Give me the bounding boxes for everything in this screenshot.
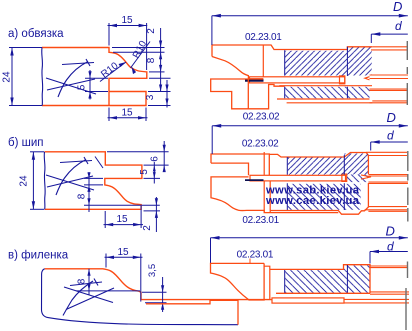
dim 6 — [107, 141, 169, 172]
d dim — [371, 34, 408, 43]
dim 15 bottom — [108, 108, 148, 122]
svg-text:3: 3 — [145, 94, 156, 100]
d dim — [371, 142, 408, 151]
svg-text:5: 5 — [77, 84, 88, 90]
panel tongue bottom and right-end step — [146, 300, 238, 324]
dim 3,5 — [142, 277, 167, 312]
upper hub hatch — [288, 158, 344, 175]
svg-text:www.cae.kiev.ua: www.cae.kiev.ua — [265, 195, 360, 207]
svg-text:15: 15 — [117, 247, 129, 258]
svg-text:2: 2 — [142, 225, 153, 231]
PIECE-A rail profile — [2, 15, 171, 121]
PIECE-C panel profile — [8, 247, 272, 325]
vertical joints — [264, 152, 270, 213]
D dim — [212, 16, 408, 45]
break line — [43, 152, 46, 210]
break symbol — [46, 59, 96, 97]
knife plate slot — [250, 175, 346, 181]
TEXTS — [0, 0, 1, 1]
svg-text:d: d — [387, 129, 394, 143]
profile outline — [45, 152, 142, 210]
break symbol — [63, 279, 114, 316]
ASSY3 cutter head bottom — [146, 224, 409, 331]
ASSY1 cutter head top — [211, 41, 408, 109]
svg-text:15: 15 — [116, 214, 128, 225]
dims 2,8,3 right stack — [112, 28, 171, 108]
shaft end break marks — [406, 262, 408, 331]
dim 5 — [85, 70, 108, 100]
svg-text:3,5: 3,5 — [147, 264, 158, 277]
dim 24 — [30, 152, 44, 210]
svg-text:02.23.01: 02.23.01 — [237, 250, 274, 261]
dim 5 — [144, 162, 161, 184]
svg-text:2: 2 — [146, 28, 157, 34]
clamp seam — [245, 179, 264, 181]
svg-text:D: D — [387, 110, 396, 125]
svg-text:5: 5 — [139, 169, 150, 175]
profile outline — [42, 48, 147, 106]
shaft end break marks — [407, 151, 409, 222]
dim 15 top — [108, 23, 148, 70]
svg-text:8: 8 — [77, 278, 88, 284]
dim 15 — [104, 206, 144, 228]
D dim — [212, 126, 408, 154]
svg-text:6: 6 — [150, 156, 161, 162]
panel left and bottom outline — [42, 269, 239, 325]
lower knife 02.23.01 — [211, 177, 338, 213]
svg-text:02.23.01: 02.23.01 — [245, 32, 282, 43]
svg-text:8: 8 — [77, 193, 88, 199]
lower knife 02.23.02 — [211, 79, 285, 109]
svg-text:D: D — [386, 224, 395, 239]
PIECE-B tenon profile — [8, 137, 169, 232]
shaft right lines — [344, 266, 409, 303]
svg-text:15: 15 — [121, 15, 133, 26]
break line — [41, 48, 44, 106]
svg-text:в) филенка: в) филенка — [8, 250, 69, 262]
svg-text:б) шип: б) шип — [8, 137, 44, 149]
svg-text:02.23.01: 02.23.01 — [242, 215, 279, 226]
lower hub — [288, 184, 361, 210]
clamp strip — [264, 266, 270, 300]
lower slot bar — [272, 298, 344, 303]
dim 2 — [144, 197, 161, 232]
svg-text:d: d — [395, 19, 402, 33]
lower hub — [279, 85, 372, 87]
dim R10 — [100, 42, 150, 82]
dim 8 — [84, 172, 160, 212]
upper hub hatch — [285, 51, 347, 76]
dim 24 — [9, 48, 42, 106]
vertical joints — [262, 45, 264, 77]
svg-text:а) обвязка: а) обвязка — [8, 28, 64, 40]
svg-text:02.23.02: 02.23.02 — [243, 112, 280, 123]
d dim — [370, 252, 408, 264]
svg-text:8: 8 — [146, 57, 157, 63]
knife plate slot — [250, 77, 345, 83]
svg-text:02.23.02: 02.23.02 — [242, 138, 279, 149]
break dims small lines — [95, 157, 103, 169]
upper knife 02.23.02 — [211, 153, 368, 176]
shaft right lines — [361, 152, 408, 211]
svg-text:15: 15 — [121, 108, 133, 119]
shaft end break marks — [406, 41, 408, 105]
dim 8 — [76, 269, 140, 295]
break symbol — [46, 157, 94, 195]
upper knife 02.23.01 — [212, 45, 372, 57]
svg-text:d: d — [387, 240, 394, 254]
shaft right lines — [365, 47, 408, 103]
hub — [270, 265, 370, 270]
svg-text:D: D — [393, 0, 402, 14]
panel top profile — [45, 269, 272, 300]
svg-text:24: 24 — [19, 175, 30, 187]
svg-text:24: 24 — [2, 71, 13, 83]
ASSY2 cutter head middle — [211, 151, 408, 222]
D dim — [211, 238, 408, 263]
clamp seam — [245, 79, 264, 82]
knife — [211, 263, 265, 300]
dim 15 — [105, 254, 143, 302]
